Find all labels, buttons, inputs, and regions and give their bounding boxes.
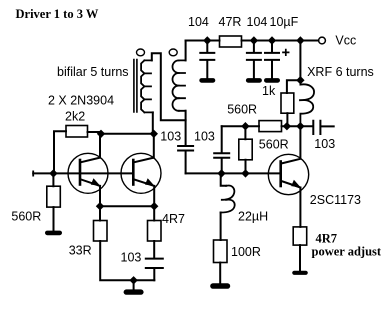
svg-text:XRF 6 turns: XRF 6 turns — [307, 65, 374, 79]
svg-text:47R: 47R — [219, 15, 242, 29]
svg-text:103: 103 — [121, 250, 142, 264]
svg-text:1k: 1k — [262, 84, 276, 98]
svg-text:2SC1173: 2SC1173 — [310, 193, 361, 207]
svg-text:Vcc: Vcc — [335, 34, 356, 48]
svg-text:2k2: 2k2 — [65, 110, 85, 124]
svg-text:10µF: 10µF — [270, 15, 299, 29]
svg-text:100R: 100R — [231, 245, 261, 259]
svg-text:22µH: 22µH — [238, 210, 268, 224]
svg-text:560R: 560R — [11, 210, 41, 224]
svg-text:104: 104 — [247, 15, 268, 29]
svg-text:33R: 33R — [69, 244, 92, 258]
svg-text:2 X 2N3904: 2 X 2N3904 — [48, 94, 114, 108]
svg-text:104: 104 — [188, 15, 209, 29]
svg-text:560R: 560R — [259, 138, 289, 152]
svg-text:103: 103 — [194, 129, 215, 143]
svg-text:103: 103 — [314, 137, 335, 151]
svg-text:bifilar 5 turns: bifilar 5 turns — [57, 65, 129, 79]
svg-text:103: 103 — [160, 129, 181, 143]
svg-text:Driver 1 to 3 W: Driver 1 to 3 W — [16, 7, 99, 21]
svg-text:4R7: 4R7 — [316, 231, 338, 245]
svg-text:4R7: 4R7 — [162, 212, 185, 226]
svg-text:power adjust: power adjust — [312, 245, 382, 259]
svg-text:560R: 560R — [227, 102, 257, 116]
